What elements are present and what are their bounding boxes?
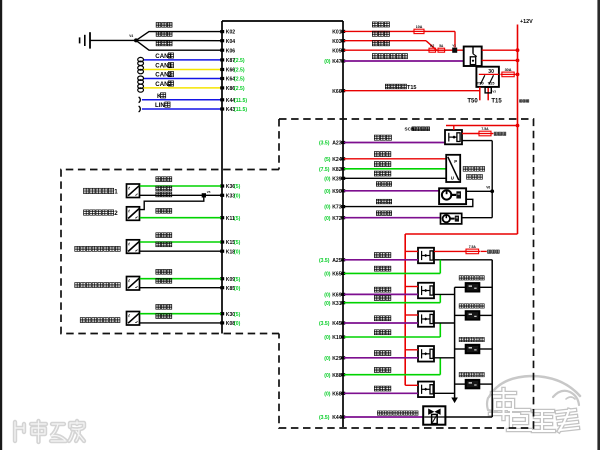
reversing valve Y1 (441, 213, 462, 224)
ECU right pins column upper (324, 30, 345, 95)
svg-text:K66: K66 (332, 89, 342, 95)
wire relay R3 output jog to element 2 (434, 322, 455, 324)
svg-text:(0): (0) (324, 293, 331, 299)
fuse F1 10A (413, 25, 426, 34)
sensor ambient-temp icon (80, 312, 140, 326)
svg-text:(5): (5) (324, 157, 331, 163)
wire pump ground jog to K73 (344, 199, 473, 206)
battery label (520, 100, 529, 103)
urea pressure sensor B1 (446, 155, 460, 182)
junction dot 2 (516, 59, 520, 63)
svg-text:(0): (0) (324, 391, 331, 397)
wire main-relay-control K47 (344, 54, 464, 61)
svg-text:(2.5): (2.5) (234, 68, 245, 74)
SCR main relay U3 (445, 130, 462, 144)
wire supply K05 (344, 41, 464, 51)
svg-text:K73: K73 (332, 205, 342, 211)
svg-text:K24: K24 (332, 157, 342, 163)
wire SCR relay power tap from +12V (446, 124, 519, 130)
heater relay R3 (418, 311, 434, 327)
svg-text:A25: A25 (332, 258, 342, 264)
heater element return-line-heater E4 (455, 373, 493, 389)
wire CAN1-high to pin K87 (144, 53, 222, 60)
svg-text:T50: T50 (467, 98, 478, 104)
connector arc K-line (139, 97, 141, 103)
wire ground ambient to K08 (140, 314, 221, 323)
wire feed to relay R1 (405, 250, 418, 252)
junction V4 (129, 34, 138, 42)
svg-text:T50: T50 (477, 81, 485, 86)
wire control K68 to relay R5 (344, 386, 418, 393)
wire SCR relay switched output down (462, 141, 492, 218)
fuse 5A (437, 44, 447, 52)
label connect-power 2 (481, 250, 500, 253)
wire control K90 to urea pump (344, 182, 439, 191)
wire valve to supply bus (462, 217, 493, 219)
wire relay R5 output jog to element 4 (434, 392, 455, 394)
svg-text:7.5A: 7.5A (481, 127, 489, 131)
junction V5 on ground wire (202, 190, 211, 198)
wire T15 down with diode V3 (485, 87, 496, 100)
wire feed to relay R5 (405, 384, 418, 386)
wire ground to junction V4 (90, 39, 136, 41)
svg-text:K01: K01 (332, 30, 342, 36)
svg-text:(5): (5) (234, 184, 241, 190)
svg-text:(5): (5) (234, 277, 241, 283)
wire K-line to pin K44 (142, 93, 221, 100)
svg-text:T15: T15 (407, 85, 416, 91)
svg-text:V3: V3 (492, 90, 496, 94)
wire signal tank-temp to K09 (140, 270, 221, 279)
wire LIN-line to pin K43 (142, 102, 221, 109)
svg-text:K03: K03 (332, 39, 342, 45)
svg-text:K88: K88 (332, 373, 342, 379)
svg-text:(3.5): (3.5) (319, 258, 330, 264)
svg-text:(5): (5) (234, 216, 241, 222)
svg-text:(0): (0) (324, 189, 331, 195)
svg-text:(3.5): (3.5) (319, 141, 330, 147)
wire through solenoid valve (424, 416, 445, 418)
label connect-power 1 (491, 132, 506, 135)
wire control K44 to heater solenoid valve (344, 411, 423, 417)
svg-text:2: 2 (114, 210, 118, 217)
svg-text:K29: K29 (332, 356, 342, 362)
wire relay R1 out with fuse 7.5A to power label (434, 250, 466, 252)
wire relay coil out to +12V (482, 59, 518, 61)
svg-text:(2.5): (2.5) (234, 86, 245, 92)
svg-text:V5: V5 (207, 190, 211, 194)
svg-text:(11.5): (11.5) (234, 98, 247, 104)
watermark car logo bottom-right (487, 376, 580, 412)
wire SCR relay out with fuse 7.5A (462, 133, 479, 135)
wire ground tank-temp to K85 (140, 279, 221, 288)
junction V6 (486, 186, 494, 194)
wire relay contact out to +12V (482, 49, 518, 51)
fuse F3 7.5A (465, 245, 481, 254)
wire relay R1 switched output to heater bus (434, 260, 492, 417)
svg-text:5A: 5A (439, 44, 444, 48)
ECU right pins column lower (319, 258, 345, 421)
label SCR main relay (405, 127, 430, 132)
ECU/DCU controller box U1 (222, 21, 343, 427)
urea line heating solenoid valve Y2 (423, 406, 445, 424)
svg-text:K72: K72 (332, 216, 342, 222)
svg-text:LIN: LIN (155, 102, 165, 109)
twisted pair symbol CAN1 (138, 57, 144, 73)
wire pump to V6 node (466, 190, 492, 192)
svg-text:K04: K04 (226, 39, 236, 45)
svg-text:V6: V6 (486, 186, 490, 190)
wire feed to relay R3 (405, 314, 418, 316)
wire power-negative 1 to pin K02 (136, 23, 221, 41)
wire CAN1-low to pin K66 (144, 63, 222, 70)
wire signal K82 to pressure sensor (344, 162, 446, 169)
svg-text:(0): (0) (324, 356, 331, 362)
wire relay R4 output jog to element 3 (434, 357, 455, 359)
svg-text:30A: 30A (505, 68, 512, 72)
svg-text:K06: K06 (226, 48, 236, 54)
watermark text bottom-left (15, 421, 84, 442)
fuse 30A (500, 68, 515, 77)
svg-text:P: P (454, 159, 457, 164)
heater element pressure-line-heater E2 (455, 304, 493, 320)
heater element inlet-line-heater E3 (455, 337, 493, 353)
wire feedback K31 (344, 294, 440, 302)
svg-text:(0): (0) (324, 272, 331, 278)
diode V1 (452, 43, 457, 52)
heater relay R2 (418, 283, 434, 299)
svg-text:(2.5): (2.5) (234, 58, 245, 64)
wire feedback K88 (344, 358, 440, 375)
wire solenoid valve to heater bus (445, 416, 492, 418)
ECU right pins column middle (319, 141, 345, 222)
wire supply K24 to pressure sensor (344, 152, 446, 159)
svg-text:(0): (0) (234, 249, 241, 255)
svg-text:(0): (0) (324, 301, 331, 307)
svg-text:(7.5): (7.5) (319, 167, 330, 173)
wire CAN2-low to pin K86 (144, 81, 222, 88)
sensor urea-tank-temp icon (75, 277, 140, 291)
svg-text:(0): (0) (324, 335, 331, 341)
svg-text:A23: A23 (332, 141, 342, 147)
heater relay R5 (418, 382, 434, 398)
wire ground sensor1 to K33 (140, 186, 221, 195)
svg-text:(0): (0) (324, 216, 331, 222)
wire ignition T15 from K66 (344, 84, 480, 91)
wire power-negative 2 to pin K04 (136, 32, 221, 41)
wire feed to relay R2 (405, 286, 418, 288)
wire supply K01 with fuse 10A (344, 22, 414, 32)
svg-text:(5): (5) (234, 312, 241, 318)
svg-text:U: U (451, 175, 454, 180)
svg-text:V1: V1 (452, 43, 456, 47)
sensor exhaust-temp-2 icon (84, 207, 140, 221)
wire ground K39 to pressure sensor (344, 171, 446, 178)
left page border bar (0, 0, 2, 450)
wire supply K03 (344, 31, 437, 50)
wire feedback K10 (344, 323, 440, 337)
svg-text:7.5A: 7.5A (469, 245, 477, 249)
svg-text:K68: K68 (332, 391, 342, 397)
power feed rail to heater relays (405, 234, 517, 385)
wire ground level-sensor to K18 (140, 242, 221, 251)
svg-text:+12V: +12V (520, 19, 533, 25)
svg-text:K39: K39 (332, 176, 342, 182)
sensor exhaust-temp-1 icon (84, 184, 140, 198)
wire signal sensor1 to K36 (140, 177, 221, 186)
wire signal level-sensor to K15 (140, 233, 221, 242)
heater element urea-pump-heater E1 (455, 276, 493, 292)
wire power-negative 3 to pin K06 (136, 40, 221, 50)
connector arc LIN-line (139, 106, 141, 112)
svg-text:K69: K69 (332, 293, 342, 299)
fuse K2 (428, 44, 438, 52)
svg-text:(3.5): (3.5) (319, 415, 330, 421)
wire feedback K65 (344, 260, 440, 274)
main relay U2 (464, 47, 482, 67)
wire feed to relay R4 (405, 349, 418, 351)
svg-text:K44: K44 (332, 415, 342, 421)
dashed boundary box sensors left (61, 170, 279, 334)
+12V supply rail (518, 19, 534, 234)
svg-text:K10: K10 (332, 335, 342, 341)
svg-text:T15: T15 (491, 98, 502, 104)
svg-text:K90: K90 (332, 189, 342, 195)
wire T50 down (479, 87, 481, 100)
heater relay R4 (418, 346, 434, 362)
svg-text:(11.5): (11.5) (234, 107, 247, 113)
svg-text:10A: 10A (416, 25, 423, 29)
svg-text:K2: K2 (430, 44, 434, 48)
svg-text:(0): (0) (234, 193, 241, 199)
wire ground sensor2 jog to junction V5 (140, 192, 204, 210)
wire control A23 to SCR relay (344, 135, 445, 142)
svg-text:(3.5): (3.5) (319, 321, 330, 327)
wire control K72 to reversing valve (344, 211, 441, 218)
urea pump M1 (439, 188, 466, 204)
junction dot 3 (516, 73, 520, 77)
wire control K69 to relay R2 (344, 287, 418, 294)
svg-text:(5): (5) (234, 240, 241, 246)
svg-text:K31: K31 (332, 301, 342, 307)
wire signal sensor2 to K11 (140, 209, 221, 218)
label urea pressure sensor (463, 167, 485, 180)
svg-text:K05: K05 (332, 48, 342, 54)
svg-text:V4: V4 (129, 34, 133, 38)
svg-text:K82: K82 (332, 167, 342, 173)
wire control K45 to relay R3 (344, 316, 418, 323)
svg-text:K45: K45 (332, 321, 342, 327)
wire signal ambient to K30 (140, 305, 221, 314)
wire control K29 to relay R4 (344, 351, 418, 358)
svg-text:1: 1 (114, 189, 118, 196)
wire K01 fuse to relay branch (424, 31, 455, 47)
svg-text:(0): (0) (324, 59, 331, 65)
ECU left pins column (220, 30, 247, 327)
svg-text:(0): (0) (234, 321, 241, 327)
svg-text:K02: K02 (226, 30, 236, 36)
sensor urea-tank-level icon (75, 240, 140, 254)
svg-text:(0): (0) (234, 286, 241, 292)
junction dot 1 (516, 48, 520, 52)
wire control A25 to relay R1 (344, 253, 418, 260)
ignition switch S1 terminal-30 box (476, 67, 499, 87)
ground symbol (80, 32, 90, 48)
svg-text:(0): (0) (324, 176, 331, 182)
right page border bar (597, 0, 600, 450)
heater element return bus with arrow (451, 287, 458, 403)
heater main relay K-R1 (418, 248, 434, 264)
svg-text:(0): (0) (324, 205, 331, 211)
dashed boundary box SCR system right (279, 119, 534, 428)
svg-text:(2.5): (2.5) (234, 77, 245, 83)
svg-text:(0): (0) (324, 373, 331, 379)
wire CAN2-high to pin K64 (144, 72, 222, 79)
fuse F2 7.5A (478, 127, 493, 136)
svg-text:K65: K65 (332, 272, 342, 278)
svg-text:T15: T15 (488, 81, 496, 86)
svg-text:K47: K47 (332, 59, 342, 65)
wire relay R2 output jog to element 1 (434, 293, 455, 295)
twisted pair symbol CAN2 (138, 76, 144, 92)
